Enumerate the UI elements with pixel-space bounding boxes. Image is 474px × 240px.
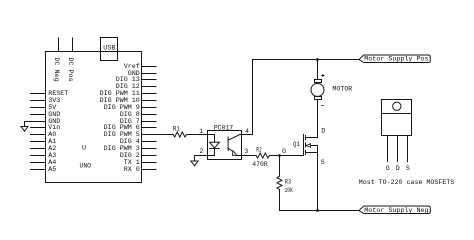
svg-text:USB: USB [103, 45, 115, 53]
IC U Arduino UNO body [46, 52, 142, 183]
pin DIG PWM 6 [142, 127, 157, 129]
pin DC Pos [72, 38, 74, 52]
junction source-rail [316, 209, 319, 212]
PC817 LED [208, 135, 215, 143]
MOSFET Q1 gate bar [303, 135, 305, 156]
svg-text:G: G [386, 165, 390, 173]
wire motor to Q1 drain [317, 100, 319, 138]
svg-text:2: 2 [199, 148, 203, 156]
pin DIG 7 [142, 121, 157, 123]
PC817 pin 2 ground [195, 156, 208, 162]
Q1 drain lead [306, 137, 318, 139]
TO-220 leg G [387, 136, 389, 162]
wire R1 to PC817 pin 1 [186, 134, 207, 136]
svg-text:Q1: Q1 [293, 141, 300, 149]
Q1 body arrow [306, 144, 311, 148]
pin A1 [31, 141, 46, 143]
svg-text:PC817: PC817 [214, 124, 233, 132]
junction motor tap [316, 58, 319, 61]
pin A5 [31, 169, 46, 171]
svg-text:D: D [396, 165, 400, 173]
pin A0 [31, 134, 46, 136]
USB connector box [101, 38, 118, 61]
svg-text:R1: R1 [173, 126, 180, 134]
wire DIG PWM 5 to R1 [142, 134, 174, 136]
pin DIG PWM 10 [142, 100, 157, 102]
svg-text:DC Neg: DC Neg [52, 58, 60, 82]
svg-text:R2: R2 [256, 146, 261, 154]
svg-text:A5: A5 [48, 166, 56, 174]
resistor R3 [279, 156, 281, 177]
svg-text:10K: 10K [285, 187, 293, 195]
pin Vref [142, 66, 157, 68]
svg-text:S: S [321, 159, 325, 167]
TO-220 leg S [407, 136, 409, 162]
pin DIG PWM 3 [142, 148, 157, 150]
flag Motor Supply Pos outline [359, 55, 430, 63]
TO-220 body [382, 114, 412, 136]
resistor R2 [242, 155, 257, 157]
svg-text:DC Pos: DC Pos [66, 58, 74, 82]
pin A3 [31, 155, 46, 157]
svg-text:Most TO-220 case MOSFETS: Most TO-220 case MOSFETS [359, 179, 455, 187]
pin A4 [31, 162, 46, 164]
Q1 channel ticks [305, 136, 307, 140]
pin DIG PWM 9 [142, 107, 157, 109]
pin 3V3 [31, 100, 46, 102]
TO-220 tab [382, 100, 412, 114]
pin DIG 12 [142, 86, 157, 88]
pin GND r [142, 73, 157, 75]
svg-text:S: S [406, 165, 410, 173]
label minus [321, 105, 323, 107]
optocoupler PC817 body [208, 131, 242, 160]
svg-text:3: 3 [244, 148, 248, 156]
label plus [321, 74, 324, 77]
pin GND a [31, 114, 46, 116]
pin DIG 4 [142, 141, 157, 143]
pin 5V [31, 107, 46, 109]
motor M1 [317, 60, 319, 80]
TO-220 hole [393, 102, 401, 110]
wire Q1 source to bottom rail [317, 146, 319, 211]
flag Motor Supply Neg outline [359, 206, 430, 214]
pin DIG 2 [142, 155, 157, 157]
svg-text:G: G [282, 148, 286, 156]
pin DIG PWM 11 [142, 93, 157, 95]
ground at GND pin [25, 122, 31, 127]
junction node G [278, 154, 281, 157]
svg-text:D: D [321, 128, 325, 136]
svg-text:U: U [82, 145, 86, 153]
Q1 source lead [306, 152, 318, 154]
svg-text:470R: 470R [252, 161, 267, 169]
svg-text:Motor Supply Neg: Motor Supply Neg [364, 207, 428, 214]
TO-220 leg D [397, 136, 399, 162]
svg-text:UNO: UNO [80, 162, 92, 170]
pin RESET [31, 93, 46, 95]
svg-text:Motor Supply Pos: Motor Supply Pos [364, 55, 428, 62]
pin DIG 8 [142, 114, 157, 116]
svg-text:1: 1 [199, 128, 203, 136]
svg-text:4: 4 [245, 128, 249, 136]
svg-text:RX 0: RX 0 [124, 166, 140, 174]
wire PC817 pin 4 riser to top rail [242, 60, 360, 135]
pin RX 0 [142, 169, 157, 171]
svg-text:MOTOR: MOTOR [332, 85, 352, 93]
pin DC Neg [58, 38, 60, 52]
wire R3 to bottom rail [280, 190, 360, 211]
pin GND b [31, 121, 46, 123]
PC817 phototransistor [227, 137, 229, 151]
pin TX 1 [142, 162, 157, 164]
svg-text:R3: R3 [285, 179, 291, 187]
pin Vin [31, 127, 46, 129]
pin A2 [31, 148, 46, 150]
pin DIG 13 [142, 79, 157, 81]
resistor R1 [173, 132, 186, 137]
